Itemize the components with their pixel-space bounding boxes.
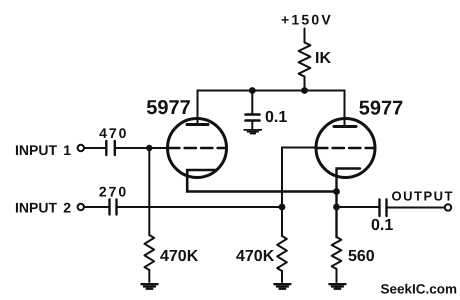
svg-text:INPUT 1: INPUT 1 — [15, 142, 71, 158]
svg-text:0.1: 0.1 — [265, 109, 287, 126]
svg-text:470K: 470K — [236, 248, 275, 265]
svg-text:470K: 470K — [160, 248, 199, 265]
svg-text:INPUT 2: INPUT 2 — [15, 200, 71, 216]
svg-text:IK: IK — [315, 50, 331, 67]
svg-text:270: 270 — [99, 184, 128, 200]
svg-text:470: 470 — [99, 125, 128, 141]
svg-text:5977: 5977 — [359, 97, 404, 119]
svg-text:SeekIC.com: SeekIC.com — [381, 282, 458, 297]
svg-text:+150V: +150V — [281, 12, 333, 28]
svg-text:560: 560 — [348, 248, 375, 265]
svg-text:0.1: 0.1 — [371, 217, 393, 234]
svg-text:OUTPUT: OUTPUT — [392, 189, 454, 204]
svg-text:5977: 5977 — [146, 97, 191, 119]
